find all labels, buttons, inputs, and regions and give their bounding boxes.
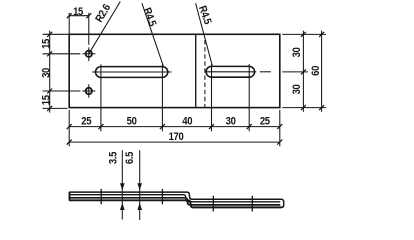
- left dims: extension line hole2 row: [43, 90, 81, 92]
- right dims col2: oblique tick bottom: [319, 105, 324, 110]
- hole H2 (R2.6) circle: [86, 88, 92, 94]
- svg-text:R4.5: R4.5: [196, 4, 214, 26]
- slot S2 centerline right dash: [260, 71, 271, 73]
- right dims: dimension line 30/30: [302, 31, 304, 112]
- svg-text:170: 170: [169, 132, 184, 144]
- side view: slot1 right projection tick: [161, 189, 163, 204]
- leader R2.6: [89, 2, 120, 54]
- left dims: oblique tick at hole2 row: [47, 89, 52, 94]
- svg-text:3.5: 3.5: [108, 151, 120, 164]
- svg-text:50: 50: [127, 116, 138, 128]
- left dims: oblique tick at hole1 row: [47, 51, 52, 56]
- side view: left segment line4 (bottom surface): [69, 200, 282, 207]
- svg-text:6.5: 6.5: [125, 151, 137, 164]
- top dim 15: oblique tick left: [67, 13, 72, 18]
- left dims: oblique tick at bottom row: [47, 106, 52, 111]
- bottom dims row1: oblique ticks: [67, 124, 72, 129]
- svg-text:25: 25: [81, 116, 92, 128]
- hole H1 (R2.6) circle: [86, 51, 92, 57]
- hole H1 centerline horizontal: [82, 53, 95, 55]
- left dims: extension line hole1 row: [43, 53, 81, 55]
- top dim 15: oblique tick right: [86, 13, 91, 18]
- right dims col1: oblique tick top: [301, 32, 306, 37]
- left dims: extension line bottom row: [43, 107, 68, 109]
- right dims: extension line bottom row: [282, 107, 326, 109]
- svg-text:30: 30: [41, 67, 53, 78]
- bend line (solid): [195, 34, 197, 107]
- svg-text:60: 60: [310, 65, 322, 76]
- svg-text:40: 40: [182, 116, 193, 128]
- bottom dims row2: oblique tick left: [67, 140, 72, 145]
- slot S1 centerline: [92, 71, 172, 73]
- right dims: extension line slot row: [282, 71, 308, 73]
- side view: slot1 left projection tick: [100, 189, 102, 204]
- slot S2 outline (R4.5 stadium): [206, 66, 254, 77]
- slot S2 right end tick + extension to bottom dim: [248, 64, 250, 131]
- svg-text:R2.6: R2.6: [94, 2, 114, 25]
- plate outline (top view): [69, 34, 280, 107]
- left dims: extension line top row: [43, 33, 70, 35]
- svg-text:R4.5: R4.5: [140, 6, 158, 28]
- top dim 15: left extension line: [68, 13, 70, 35]
- slot S2 left end tick + extension to bottom dim: [211, 64, 213, 131]
- hole H2 centerline horizontal: [82, 90, 95, 92]
- bend line (hidden, dashed): [204, 40, 206, 108]
- side dim 3.5: up arrowhead: [120, 203, 125, 210]
- side dim 6.5: vertical line: [139, 150, 141, 220]
- bottom dims: dimension line row2 (170): [69, 141, 280, 143]
- side view: left segment line1 (top surface upper level): [69, 192, 282, 199]
- svg-text:25: 25: [260, 116, 271, 128]
- bottom dims row2: oblique tick right: [277, 140, 282, 145]
- slot S1 outline (R4.5 stadium): [96, 67, 168, 78]
- svg-text:15: 15: [41, 38, 53, 49]
- side view: right end cap: [281, 199, 284, 207]
- left dims: dimension line: [49, 31, 51, 113]
- right dims col2: oblique tick top: [319, 32, 324, 37]
- side view: slot2 left projection tick: [212, 196, 214, 212]
- hole H1 centerline vertical + top extension to 15 dim: [88, 13, 90, 45]
- leader R4.5 first: [142, 3, 164, 67]
- leader R4.5 second: [196, 3, 213, 65]
- right dims: extension line top row: [282, 33, 326, 35]
- side view: slot2 right projection tick: [251, 196, 253, 212]
- svg-text:30: 30: [291, 84, 303, 95]
- right dims col1: oblique tick bottom: [301, 105, 306, 110]
- svg-text:15: 15: [73, 7, 84, 19]
- svg-text:15: 15: [41, 95, 53, 106]
- side dim 6.5: up arrowhead: [137, 203, 142, 210]
- svg-text:30: 30: [226, 116, 237, 128]
- side dim 3.5: vertical line: [121, 150, 123, 219]
- hole H2 centerline vertical: [88, 84, 90, 97]
- side view: left segment line2: [69, 195, 280, 202]
- slot S2 centerline: [206, 71, 256, 73]
- svg-text:30: 30: [291, 47, 303, 58]
- top dim 15: dimension line: [69, 15, 89, 17]
- slot S1 left end tick + extension to bottom dim: [100, 64, 102, 131]
- side dim 3.5: down arrowhead: [120, 183, 125, 190]
- bottom dims: extension line plate left corner: [68, 110, 70, 146]
- bottom dims: extension line plate right corner: [279, 110, 281, 146]
- slot S1 right end tick + extension to bottom dim: [161, 64, 163, 131]
- side view: left end cap: [69, 192, 71, 201]
- left dims: oblique tick at top edge: [47, 32, 52, 37]
- side view: left segment line3: [69, 198, 280, 205]
- right dims: dimension line 60: [321, 31, 323, 112]
- right dims col1: oblique tick middle: [301, 69, 306, 74]
- bottom dims: dimension line row1 (25/50/40/30/25): [69, 126, 280, 128]
- side dim 6.5: down arrowhead: [137, 183, 142, 190]
